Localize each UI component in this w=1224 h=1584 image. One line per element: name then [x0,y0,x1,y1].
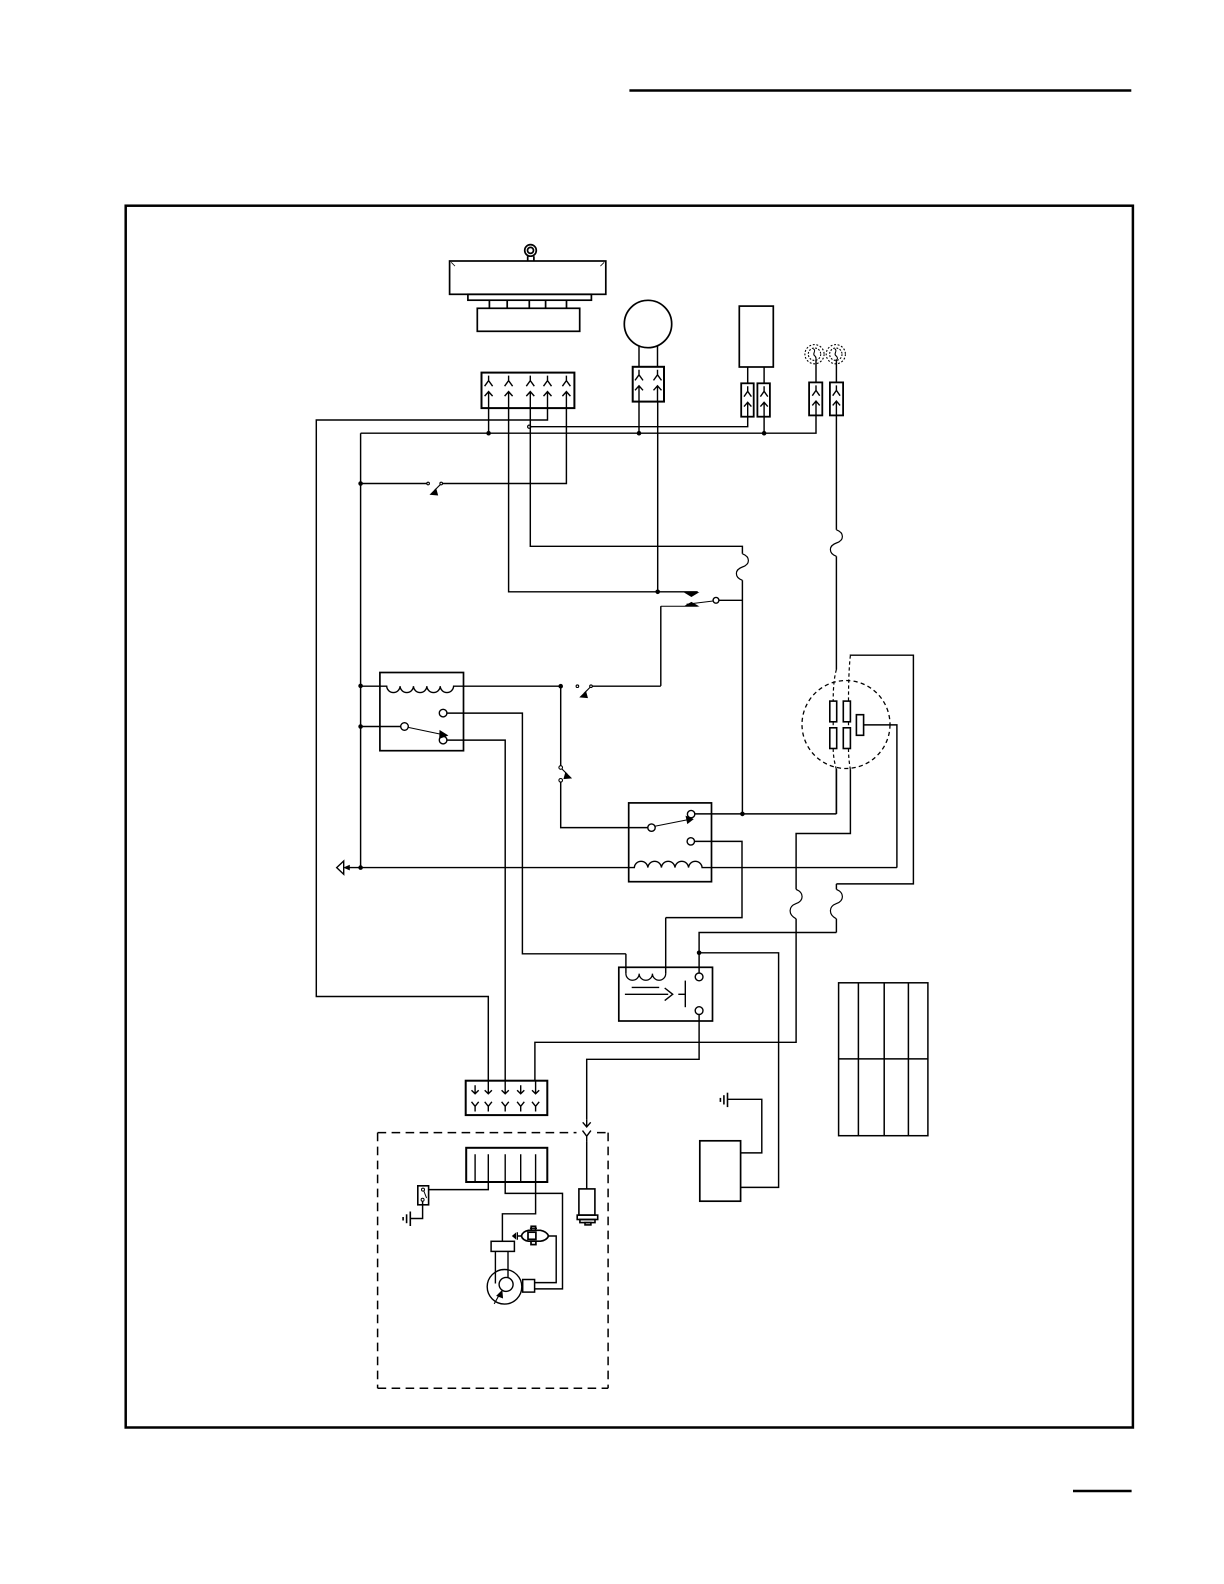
header rule [629,89,1131,92]
inducer motor assembly [487,1241,534,1304]
wire loop curl on pivot riser [736,554,748,581]
switch S2 (vertical, NO) [559,686,648,827]
wire lamp leads [816,359,836,382]
wire R1 NC contact to TDR coil feed [447,713,626,954]
junction R2 top contact wire / pivot riser [740,812,745,817]
ground G1 [720,1093,727,1107]
terminal strip grid TS [839,983,928,1136]
coil TD1 [626,974,666,981]
wire motor plug pin to SPDT1 line [657,402,659,592]
wire TD1 coil right lead [665,918,667,974]
time-delay relay TD1 [619,967,713,1021]
junction motor plug pin1 / wire C [637,431,642,436]
rotation arrow [494,1295,499,1304]
dashed internal leads [833,655,850,769]
wire A: TB1 pin4 to left rail down to TB2 pin2 [316,408,547,1081]
junction TB1-pin1 / wire C [486,431,491,436]
junction R1 pivot / left rail [358,724,363,729]
run capacitor block [491,1241,514,1251]
wire B1 to ground [728,1099,762,1153]
relay R1 (blower relay) [380,673,464,751]
compressor COMP (hermetic, dashed shell) [802,681,890,769]
wire compressor start leg top loop to TD1 [836,655,913,889]
wire M1 leads [639,346,658,367]
wire TD1 bottom terminal to igniter disconnect [587,1015,699,1120]
relay R1 contacts [401,709,448,744]
node tap circle on pin3 drop [528,425,531,428]
junction wire E / left rail [358,481,363,486]
wire TD1 top terminal up and right to compressor leg [699,933,836,974]
footer rule [1073,1490,1132,1492]
compressor terminal blocks [830,701,864,748]
connector P3 (capacitor lead plug) [757,383,770,416]
connector TB1 (5-pin thermostat plug) [482,373,575,409]
ground G2 [403,1212,410,1227]
wire to igniter [586,1142,588,1189]
terminal box [523,1280,535,1293]
gas inlet fitting [513,1234,516,1239]
TD1 terminals [695,973,703,981]
thermostat TSTAT [450,245,606,332]
pressure switch PS1 [418,1186,429,1205]
junction R1 coil / left rail [358,684,363,689]
wire TD1 coil left lead [625,954,627,974]
switch S3 (NO, in relay line) [576,685,661,698]
wire riser to pivot [719,580,743,814]
wire lamp plug P5 leg down to compressor (with loop) [835,415,837,529]
wire GV1 to inducer terminal box upper lead [535,1236,557,1283]
wire branch to control box B1 [699,953,779,1188]
wire TB1 pin2 down to limit switch SPDT1 common line [509,408,698,592]
wire C: left rail tap across to lamp plug P4 [361,402,816,434]
connector TB2 (5-pin chassis plug) [466,1081,548,1115]
wire compressor lower-left leg to R2 contact line [835,770,837,814]
junction motor plug pin2 / SPDT1 line [655,590,660,595]
inducer motor IDM [487,1270,522,1305]
connector P2 (capacitor lead plug) [741,383,754,416]
junction R2 coil wire / left rail [358,865,363,870]
coil R2 [349,861,897,867]
connector P4 (lamp plug) [809,382,822,415]
open arrow terminal at left end of coil wire [337,861,344,874]
junction TD1 top terminal / branch to B1 [697,951,702,956]
wire D: TB1 pin3 down and across to SPDT1 pivot riser [530,408,742,554]
diagram border frame [126,206,1133,1428]
connector TB3 (5-pin header) [466,1148,547,1182]
wire R1 NO contact down to TB2 pin3 [447,740,505,1081]
dashed furnace control enclosure [378,1133,608,1389]
wire SPDT1 lower throw down to relay line [660,606,662,686]
junction relay line / switch S2 [558,684,563,689]
switch S1 (auto-reset limit, NC) [427,482,443,495]
wire R1 pivot to left rail [361,726,401,728]
wire R2 coil right to compressor run terminal [864,725,897,868]
control module B1 [700,1141,741,1201]
indicator lamp DS1 [805,345,824,364]
wire TB3 pin3 to inducer motor lower lead [505,1182,562,1289]
igniter HSI [577,1189,598,1225]
wire E: TB1 pin5 down, left through switch S1 to vertical rail [361,408,567,867]
junction capacitor plug P3 / wire C [762,431,767,436]
disconnect plug (male arrow / female fork) [583,1120,591,1142]
wire C1 leads [748,367,764,383]
indicator lamp DS2 [826,345,845,364]
heater arrow symbol inside TD1 [625,981,685,1008]
coil R1 [361,686,561,692]
gas valve GV1 [521,1226,548,1244]
relay R2 (heat relay) [629,803,712,882]
wire TB3 pin2 to pressure switch [428,1182,488,1190]
connector P1 (2-pin motor plug) [633,367,664,402]
connector P5 (lamp plug) [830,382,843,415]
wire capacitor leads into motor [495,1251,508,1283]
wire B: TB1 pin3 tap to capacitor plug P2 [531,417,748,427]
wire compressor lower-right leg down to TB2 pin5 (with loop) [796,770,850,890]
capacitor C1 [739,306,773,367]
wire TB3 pin5 to run capacitor block [502,1182,535,1241]
limit switch SPDT1 [661,593,719,607]
blower motor M1 [624,300,671,347]
relay R2 contacts [648,769,837,918]
wire PS1 to ground [410,1201,422,1218]
